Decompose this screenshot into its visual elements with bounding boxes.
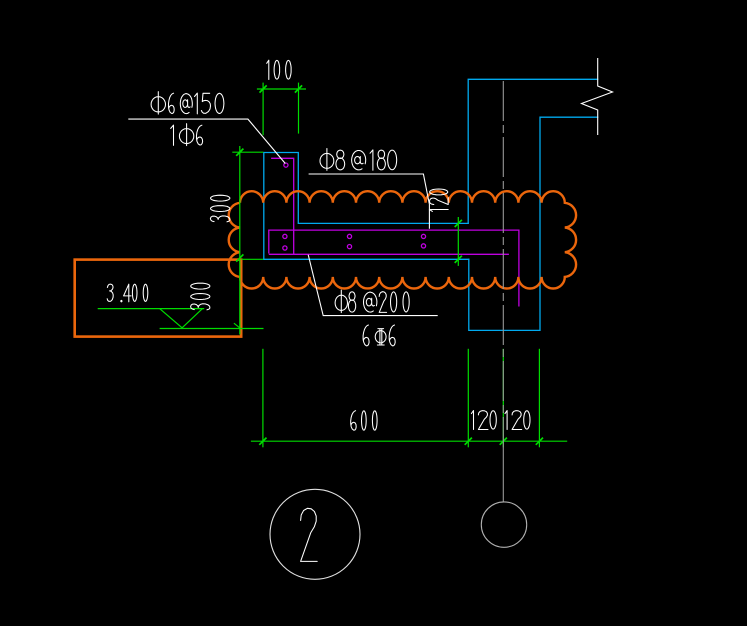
leader line to detail target circle xyxy=(502,443,504,502)
rotated dim text 300 (box) xyxy=(191,283,210,310)
leader line for F6@150 xyxy=(128,119,285,163)
bottom dim: extension lines xyxy=(262,349,264,448)
column centerline (dash-dot) xyxy=(502,81,504,443)
dim text 120 (right) xyxy=(505,411,530,430)
bottom dimension line 600/120/120 xyxy=(251,440,567,442)
text 1F6 xyxy=(171,124,203,146)
highlight box around elevation xyxy=(75,260,242,337)
rebar section dot (leader target) xyxy=(284,163,288,167)
dim text 120 (left) xyxy=(471,411,496,430)
detail bubble circle xyxy=(270,489,360,579)
detail number 2 xyxy=(301,508,318,561)
slab top bar with end bend xyxy=(269,230,519,306)
dim text 600 xyxy=(351,411,377,431)
elevation symbol: level line xyxy=(98,308,205,310)
slab bottom line xyxy=(264,258,469,260)
dim 100: dimension line xyxy=(257,88,306,90)
elevation symbol: lower line with arrow xyxy=(160,328,264,330)
dim 300: extension lines xyxy=(232,151,263,153)
dim ticks xyxy=(260,85,267,92)
dim 100: extension lines xyxy=(262,83,264,136)
dim 300 vertical line (also elevation leader) xyxy=(239,146,241,335)
detail target small circle xyxy=(481,502,526,547)
elevation text 3.400 xyxy=(107,284,148,302)
text F8@180 xyxy=(320,149,397,171)
parapet starter bar (hook) xyxy=(271,158,294,254)
rebar section dots in slab xyxy=(283,234,287,238)
text F8@200 xyxy=(335,290,409,313)
elevation symbol: triangle xyxy=(160,309,203,328)
text 6 F6 xyxy=(363,325,395,346)
dim text 100 xyxy=(267,60,291,79)
break line with zigzag xyxy=(582,58,613,135)
leader line for F8@200 xyxy=(308,255,438,316)
slab bottom bar xyxy=(269,253,509,255)
text F6@150 xyxy=(151,92,224,115)
leader line for F8@180 xyxy=(309,174,430,229)
revision cloud (insulation band) xyxy=(229,191,576,288)
wall step outline (parapet + slab) xyxy=(264,153,468,260)
column outline xyxy=(468,79,598,223)
rotated dim text 300 (step) xyxy=(210,195,230,222)
rotated dim text 120 xyxy=(429,189,448,211)
dim 120 vertical at column face xyxy=(457,217,459,266)
